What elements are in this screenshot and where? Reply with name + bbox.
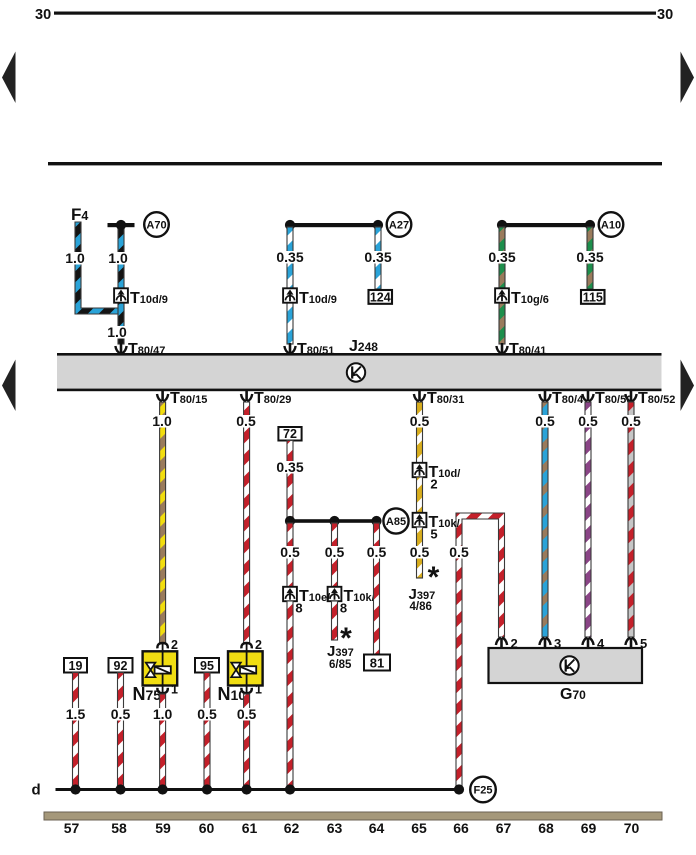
N10 valve symbol [231, 663, 241, 678]
svg-text:92: 92 [114, 659, 128, 673]
junction dot [285, 516, 295, 526]
ground dot N10 [242, 784, 252, 794]
svg-text:57: 57 [64, 820, 80, 836]
svg-text:1.0: 1.0 [108, 250, 128, 266]
continuation arrow left top [2, 52, 16, 104]
svg-text:68: 68 [538, 820, 554, 836]
connector circle A10 [599, 212, 624, 237]
svg-text:2: 2 [255, 638, 262, 652]
svg-text:70: 70 [624, 820, 640, 836]
svg-text:3: 3 [554, 636, 561, 651]
svg-text:4/86: 4/86 [410, 601, 432, 613]
arrow out of bus T80/29 [241, 391, 252, 401]
svg-text:2: 2 [511, 636, 518, 651]
svg-text:0.35: 0.35 [276, 249, 303, 265]
svg-text:N10: N10 [218, 684, 247, 704]
svg-text:0.35: 0.35 [488, 249, 515, 265]
svg-text:6/85: 6/85 [329, 659, 352, 671]
svg-text:0.5: 0.5 [535, 413, 555, 429]
track numbers [60, 838, 84, 851]
svg-text:63: 63 [327, 820, 343, 836]
svg-text:A85: A85 [386, 516, 406, 528]
connector T10g/6 [495, 288, 509, 302]
svg-text:67: 67 [496, 820, 512, 836]
svg-text:1.0: 1.0 [153, 706, 173, 722]
continuation arrow right middle [681, 360, 695, 412]
ground dot bridge [454, 784, 464, 794]
svg-text:2: 2 [430, 477, 437, 492]
svg-text:60: 60 [199, 820, 215, 836]
wire F4 left leg blue/black [75, 222, 124, 314]
arrow out of bus T80/4 [539, 391, 550, 401]
wire T80/15 to N75 brown/yellow [160, 402, 166, 643]
wire size 0.35 [575, 251, 605, 264]
ground dot 95 [202, 784, 212, 794]
svg-text:0.5: 0.5 [367, 544, 387, 560]
K symbol in G70 [560, 656, 578, 674]
svg-text:0.5: 0.5 [111, 706, 131, 722]
svg-text:1: 1 [171, 683, 178, 697]
track number bar [44, 812, 662, 820]
svg-text:0.5: 0.5 [410, 544, 430, 560]
svg-text:1.0: 1.0 [65, 250, 85, 266]
connector box 81 [364, 655, 390, 671]
svg-text:65: 65 [411, 820, 427, 836]
G70 pin 2 arrow [496, 638, 507, 648]
control unit J248 bus bar [57, 354, 662, 390]
arrow into bus T80/51 [284, 343, 295, 353]
ground dot N75 [158, 784, 168, 794]
wire yellow/white lower [417, 527, 423, 578]
wire yellow/white middle [417, 477, 423, 513]
svg-text:A27: A27 [389, 220, 409, 232]
connector T10d/9 on F4 branch [114, 288, 128, 302]
svg-text:T10d/9: T10d/9 [299, 290, 337, 307]
svg-text:1: 1 [255, 683, 262, 697]
G70 pin 5 arrow [625, 638, 636, 648]
wire A10 right brown/green [587, 227, 593, 289]
ground point F25 [470, 777, 496, 803]
svg-text:F25: F25 [474, 785, 493, 797]
svg-text:T10e/: T10e/ [299, 588, 330, 605]
svg-text:T80/29: T80/29 [254, 390, 291, 407]
continuation arrow right top [681, 52, 695, 104]
wire size 1.0 lower [105, 326, 129, 339]
svg-text:T80/31: T80/31 [427, 390, 464, 407]
svg-text:81: 81 [370, 656, 384, 671]
junction bar at A85 [288, 519, 379, 523]
connector circle A27 [387, 212, 412, 237]
wire 19 to ground red/white [73, 673, 79, 789]
N75 pin 1 socket [157, 688, 167, 693]
valve N10 body [228, 651, 263, 685]
wire size 0.35 [363, 251, 393, 264]
svg-text:0.5: 0.5 [280, 544, 300, 560]
ground dot 19 [70, 784, 80, 794]
N75 pin 2 socket [157, 643, 167, 648]
arrow into bus T80/47 [115, 343, 126, 353]
wire N75 to ground red/white [160, 694, 166, 788]
svg-text:4: 4 [597, 636, 605, 651]
wire stub below T10k/8 [332, 601, 338, 640]
svg-text:T10k/: T10k/ [344, 588, 375, 605]
wire T80/31 yellow/white upper [417, 402, 423, 463]
svg-text:61: 61 [242, 820, 258, 836]
svg-text:1.5: 1.5 [66, 706, 86, 722]
wire A27 left upper blue/white [287, 227, 293, 289]
wire A27 right blue/white [375, 227, 381, 289]
node bar at A27 [288, 223, 380, 227]
svg-text:0.5: 0.5 [237, 706, 257, 722]
N10 pin 2 socket [241, 643, 251, 648]
connector T10e/8 [283, 587, 297, 601]
svg-text:5: 5 [640, 636, 647, 651]
connector T10d/2 [413, 463, 427, 477]
svg-text:1.0: 1.0 [152, 413, 172, 429]
svg-text:95: 95 [200, 659, 214, 673]
arrow into bus T80/41 [496, 343, 507, 353]
N10 pin 1 socket [241, 688, 251, 693]
svg-text:0.5: 0.5 [410, 413, 430, 429]
wire T80/29 to N10 red/white [244, 402, 250, 643]
connector T10d/9 on A27 branch [283, 288, 297, 302]
arrow out of bus T80/15 [157, 391, 168, 401]
svg-text:F4: F4 [71, 205, 88, 224]
wire T80/52 red/gray [628, 402, 634, 637]
wire T80/50 purple/white [585, 402, 591, 637]
junction dot A27 right [373, 220, 383, 230]
continuation arrow left middle [2, 360, 16, 412]
junction dot A27 left [285, 220, 295, 230]
connector box 72 [278, 427, 301, 441]
wire T80/4 blue/brown [542, 402, 548, 637]
svg-text:G70: G70 [560, 686, 586, 703]
svg-text:J248: J248 [349, 338, 378, 355]
arrow out of bus T80/52 [625, 391, 636, 401]
svg-text:30: 30 [657, 7, 673, 23]
ground bridge horizontal red/white [456, 513, 505, 788]
connector box 92 [109, 658, 133, 673]
svg-text:0.5: 0.5 [578, 413, 598, 429]
svg-text:66: 66 [453, 820, 469, 836]
svg-text:59: 59 [155, 820, 171, 836]
svg-text:N75: N75 [133, 684, 162, 704]
wire N10 to ground red/white [244, 694, 250, 788]
G70 pin 3 arrow [539, 638, 550, 648]
wire junction down leg 1 red/white [287, 523, 293, 587]
valve N75 body [143, 651, 178, 685]
connector T10k/8 [328, 587, 342, 601]
sender G70 box [489, 648, 643, 683]
svg-text:A70: A70 [146, 220, 166, 232]
arrow out of bus T80/31 [414, 391, 425, 401]
connector box 124 [369, 290, 393, 304]
wire F4 right leg lower blue/black [118, 302, 124, 344]
wire 92 to ground red/white [118, 673, 124, 789]
wire size 1.0 left [63, 252, 87, 265]
svg-text:19: 19 [69, 659, 83, 673]
connector circle A85 [383, 508, 408, 533]
svg-text:30: 30 [35, 7, 51, 23]
svg-text:64: 64 [369, 820, 385, 836]
svg-text:0.5: 0.5 [236, 413, 256, 429]
connector box 115 [581, 290, 605, 304]
wire size 0.35 [275, 251, 305, 264]
svg-text:5: 5 [430, 527, 437, 542]
svg-text:0.5: 0.5 [325, 544, 345, 560]
wire 72 to junction red/white [287, 441, 293, 520]
arrow out of bus T80/50 [582, 391, 593, 401]
svg-text:A10: A10 [601, 220, 621, 232]
svg-text:0.5: 0.5 [197, 706, 217, 722]
wire junction down leg 2 red/white [332, 523, 338, 587]
svg-text:T80/15: T80/15 [170, 390, 207, 407]
svg-text:0.5: 0.5 [621, 413, 641, 429]
ground dot T10e [285, 784, 295, 794]
wire A27 left lower blue/white [287, 302, 293, 344]
wire T10e to ground red/white [287, 601, 293, 788]
svg-text:72: 72 [283, 427, 297, 441]
wire 95 to ground red/white [204, 673, 210, 789]
junction dot A10 right [585, 220, 595, 230]
junction dot F4/A70 [116, 220, 126, 230]
G70 pin 4 arrow [582, 638, 593, 648]
svg-text:58: 58 [111, 820, 127, 836]
junction dot [329, 516, 339, 526]
svg-text:115: 115 [583, 290, 603, 304]
node bar at A70 [108, 223, 135, 227]
node bar at A10 [500, 223, 592, 227]
junction dot A10 left [497, 220, 507, 230]
svg-text:8: 8 [340, 601, 347, 616]
svg-text:124: 124 [370, 290, 391, 304]
wire size 0.35 [487, 251, 517, 264]
connector circle A70 [144, 212, 169, 237]
svg-text:0.35: 0.35 [364, 249, 391, 265]
ground dot 92 [115, 784, 125, 794]
svg-text:T80/52: T80/52 [638, 390, 675, 407]
svg-text:2: 2 [171, 638, 178, 652]
connector T10k/5 [413, 513, 427, 527]
svg-text:0.35: 0.35 [276, 459, 303, 475]
connector box 19 [64, 658, 87, 673]
svg-text:1.0: 1.0 [107, 324, 127, 340]
wire A10 left lower brown/green [499, 302, 505, 344]
wire size 1.0 right [106, 252, 130, 265]
K diagnostic symbol in bus [347, 363, 365, 381]
svg-text:T10g/6: T10g/6 [511, 290, 549, 307]
connector box 95 [195, 658, 219, 673]
svg-text:0.35: 0.35 [576, 249, 603, 265]
wire junction down leg 3 red/white [374, 523, 380, 655]
junction dot [371, 516, 381, 526]
svg-text:69: 69 [581, 820, 597, 836]
svg-text:T10d/9: T10d/9 [130, 290, 168, 307]
svg-text:0.5: 0.5 [449, 544, 469, 560]
wire F4 right leg upper blue/black [118, 226, 124, 289]
terminal 30 supply line [54, 12, 656, 15]
svg-text:62: 62 [284, 820, 300, 836]
svg-text:d: d [32, 782, 41, 799]
separator line [48, 162, 662, 165]
svg-text:T80/4: T80/4 [552, 390, 584, 407]
N75 valve symbol [146, 663, 156, 678]
wire A10 left upper brown/green [499, 227, 505, 289]
